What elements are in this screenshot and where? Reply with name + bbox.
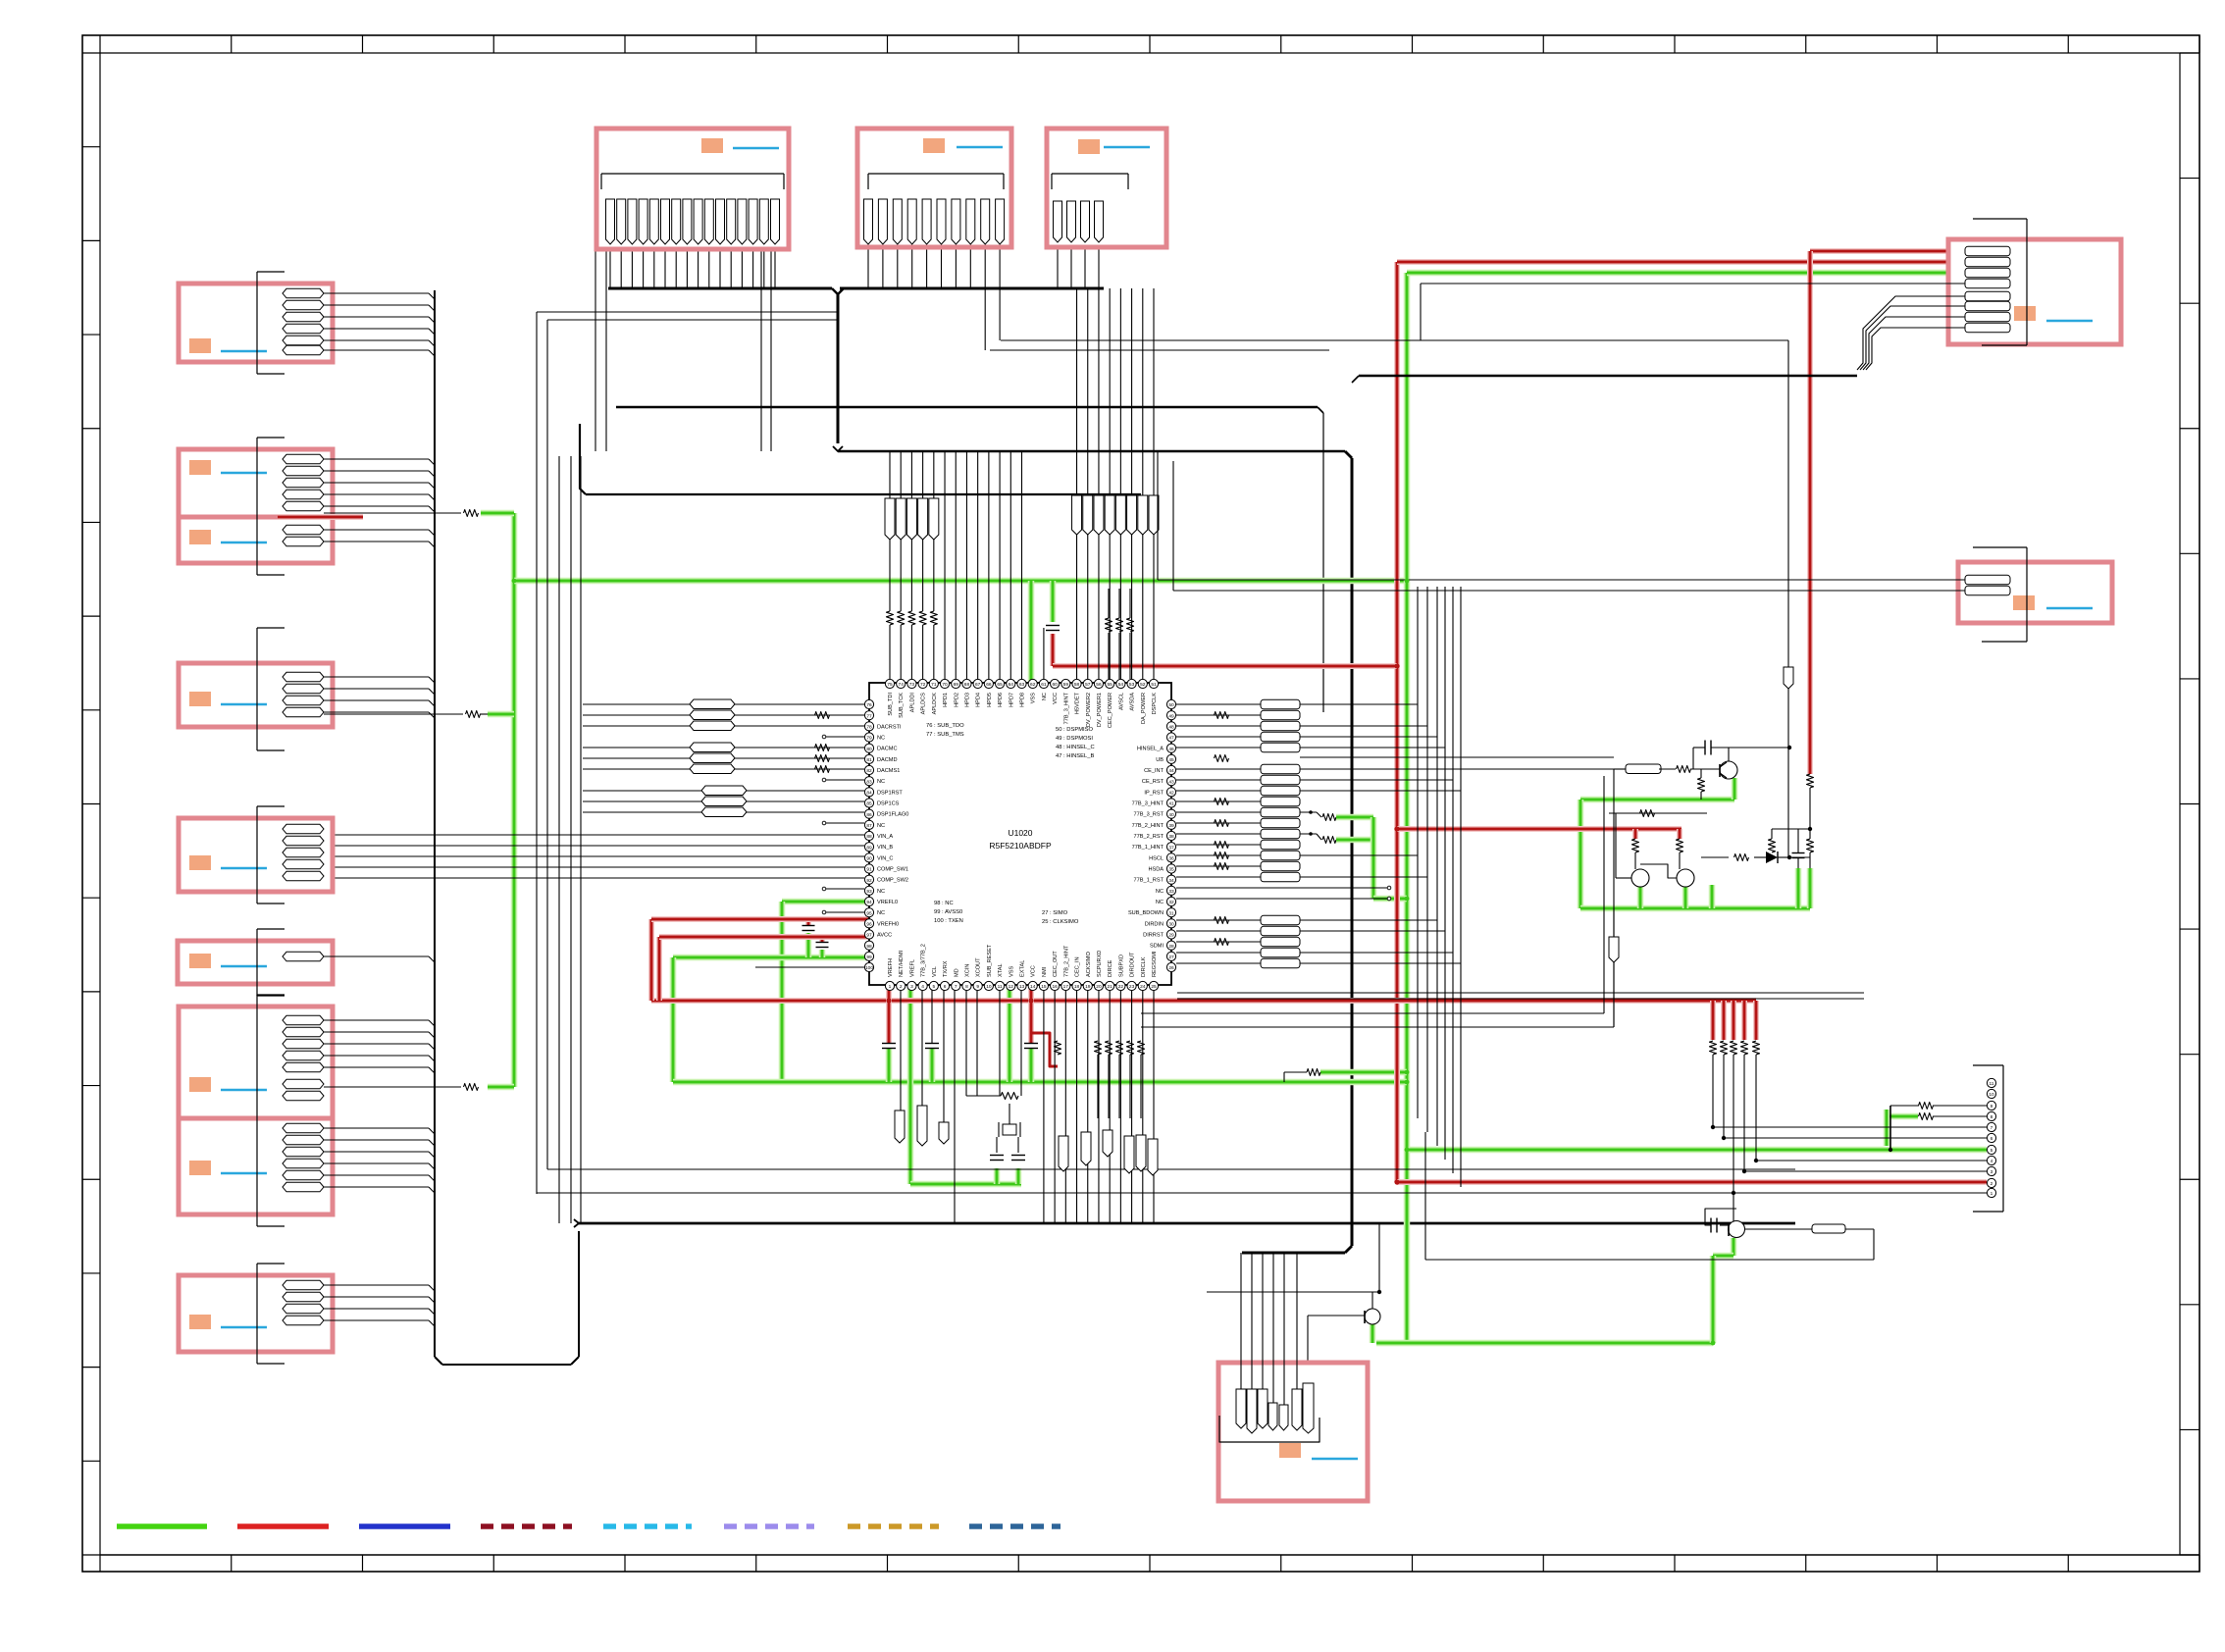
svg-text:24: 24 [1140,984,1146,990]
svg-text:77B_3_RST: 77B_3_RST [1134,812,1164,818]
svg-text:51: 51 [1151,682,1157,688]
svg-text:XCIN: XCIN [964,964,970,977]
svg-text:VREFL0: VREFL0 [877,900,898,905]
svg-text:CE_RST: CE_RST [1142,779,1164,785]
svg-text:96: 96 [866,922,872,928]
svg-text:95: 95 [866,910,872,916]
svg-text:3: 3 [910,984,913,990]
svg-text:7: 7 [955,984,957,990]
svg-text:50: 50 [1168,702,1174,708]
svg-text:85: 85 [866,801,872,807]
svg-text:46: 46 [1168,747,1174,752]
svg-text:23: 23 [1129,984,1135,990]
svg-text:99: 99 [866,955,872,960]
svg-text:62: 62 [1030,682,1036,688]
svg-text:75: 75 [887,682,893,688]
svg-text:HPD1: HPD1 [943,693,949,707]
svg-text:25: 25 [1151,984,1157,990]
svg-text:DACMC: DACMC [877,747,898,752]
svg-text:72: 72 [920,682,926,688]
svg-text:H5VDET: H5VDET [1075,692,1081,714]
svg-text:DIRRST: DIRRST [1143,933,1164,939]
svg-text:98: 98 [866,944,872,950]
svg-text:DACMS1: DACMS1 [877,768,900,774]
svg-text:COMP_SW2: COMP_SW2 [877,878,908,884]
svg-text:20: 20 [1096,984,1102,990]
svg-text:77 : SUB_TMS: 77 : SUB_TMS [926,732,964,738]
svg-text:HPD8: HPD8 [1020,693,1026,707]
svg-text:VCL: VCL [932,966,938,977]
svg-text:VCC: VCC [1031,965,1037,977]
svg-text:HSCL: HSCL [1149,855,1164,861]
svg-text:NC: NC [877,823,885,829]
svg-text:4: 4 [921,984,924,990]
svg-text:50 : DSPMISO: 50 : DSPMISO [1056,727,1094,733]
svg-text:21: 21 [1107,984,1112,990]
svg-text:HPD6: HPD6 [998,693,1004,707]
svg-text:3: 3 [1991,1169,1993,1175]
svg-text:77B_3_HINT: 77B_3_HINT [1063,692,1069,724]
svg-text:8: 8 [1991,1114,1993,1120]
svg-text:VREFL: VREFL [909,959,915,977]
svg-text:2: 2 [900,984,903,990]
svg-text:NMI: NMI [1042,966,1048,977]
svg-text:HPD4: HPD4 [976,693,982,707]
svg-text:45: 45 [1168,757,1174,763]
svg-text:CEC_POWER: CEC_POWER [1108,693,1113,728]
svg-text:EXTAL: EXTAL [1020,960,1026,977]
svg-text:11: 11 [998,984,1003,990]
svg-text:71: 71 [931,682,937,688]
svg-text:86: 86 [866,812,872,818]
svg-text:64: 64 [1009,682,1014,688]
svg-text:58: 58 [1074,682,1080,688]
svg-text:DA_POWER: DA_POWER [1141,693,1147,724]
svg-text:89: 89 [866,845,872,851]
svg-text:VCC: VCC [1053,693,1059,704]
svg-text:VSS: VSS [1031,693,1037,703]
svg-text:UB: UB [1156,757,1164,763]
svg-text:DIRCLK: DIRCLK [1141,956,1147,977]
svg-text:77B_2_HINT: 77B_2_HINT [1132,823,1164,829]
svg-text:5: 5 [932,984,935,990]
svg-text:SUBPXD: SUBPXD [1118,955,1124,977]
svg-text:8: 8 [965,984,968,990]
svg-text:DIRDIN: DIRDIN [1145,921,1164,927]
svg-text:80: 80 [866,747,872,752]
svg-text:XTAL: XTAL [998,963,1004,977]
svg-text:HPD2: HPD2 [954,693,959,707]
svg-text:CEC_IN: CEC_IN [1075,956,1081,977]
svg-text:10: 10 [1989,1092,1994,1098]
svg-text:60: 60 [1052,682,1058,688]
svg-text:5: 5 [1991,1148,1993,1154]
svg-text:28: 28 [1168,944,1174,950]
svg-text:27: 27 [1168,955,1174,960]
svg-text:CE_INT: CE_INT [1144,768,1164,774]
svg-text:HINSEL_A: HINSEL_A [1137,747,1164,752]
svg-text:CEC_OUT: CEC_OUT [1053,951,1059,977]
svg-text:DSP1CS: DSP1CS [877,801,900,807]
svg-text:32: 32 [1168,900,1174,905]
svg-text:NC: NC [877,910,885,916]
svg-text:ACKSIMO: ACKSIMO [1086,952,1092,977]
svg-text:68: 68 [964,682,970,688]
svg-text:9: 9 [976,984,979,990]
svg-text:88: 88 [866,834,872,840]
svg-text:54: 54 [1118,682,1124,688]
svg-text:HPD7: HPD7 [1009,693,1014,707]
svg-text:4: 4 [1991,1159,1993,1164]
svg-text:47 : HINSEL_B: 47 : HINSEL_B [1056,753,1094,759]
svg-text:77B_1_RST: 77B_1_RST [1134,878,1164,884]
svg-text:TX/RX: TX/RX [943,960,949,977]
svg-text:65: 65 [997,682,1003,688]
svg-text:DV_POWER1: DV_POWER1 [1097,693,1103,727]
svg-text:91: 91 [866,867,872,873]
svg-text:67: 67 [975,682,981,688]
svg-text:82: 82 [866,768,872,774]
svg-text:77B_2_HINT: 77B_2_HINT [1063,945,1069,977]
svg-text:2: 2 [1991,1181,1993,1187]
svg-text:DSP1FLAG0: DSP1FLAG0 [877,812,908,818]
svg-text:61: 61 [1041,682,1047,688]
svg-text:14: 14 [1030,984,1036,990]
svg-text:NC: NC [877,736,885,742]
svg-text:1: 1 [889,984,892,990]
svg-text:22: 22 [1118,984,1124,990]
svg-text:SUB_BDOWN: SUB_BDOWN [1128,910,1164,916]
svg-text:81: 81 [866,757,872,763]
svg-text:92: 92 [866,878,872,884]
svg-text:SUB_TCK: SUB_TCK [899,693,905,718]
svg-text:11: 11 [1990,1081,1994,1087]
svg-text:53: 53 [1129,682,1135,688]
svg-text:NC: NC [1042,693,1048,700]
svg-text:35: 35 [1168,867,1174,873]
svg-text:7: 7 [1991,1125,1993,1131]
svg-text:1: 1 [1991,1191,1993,1197]
svg-text:AVSDA: AVSDA [1130,693,1136,711]
svg-text:83: 83 [866,779,872,785]
svg-text:DSP1RST: DSP1RST [877,790,903,796]
svg-text:100 : TXEN: 100 : TXEN [934,918,963,924]
svg-text:17: 17 [1063,984,1069,990]
svg-text:44: 44 [1168,768,1174,774]
svg-text:55: 55 [1107,682,1112,688]
svg-text:VIN_C: VIN_C [877,855,893,861]
svg-text:42: 42 [1168,791,1174,797]
svg-text:100: 100 [865,965,873,971]
svg-text:29: 29 [1168,933,1174,939]
svg-text:HPD3: HPD3 [964,693,970,707]
svg-text:84: 84 [866,791,872,797]
svg-text:40: 40 [1168,812,1174,818]
svg-text:99 : AVSS0: 99 : AVSS0 [934,909,962,915]
svg-text:97: 97 [866,933,872,939]
svg-text:XCOUT: XCOUT [976,957,982,977]
svg-text:DACRSTI: DACRSTI [877,724,902,730]
svg-text:APLDCS: APLDCS [921,693,927,715]
svg-text:31: 31 [1168,910,1174,916]
svg-text:74: 74 [899,682,905,688]
svg-text:37: 37 [1168,845,1174,851]
svg-text:26: 26 [1168,965,1174,971]
svg-text:77B_3/77B_2: 77B_3/77B_2 [921,944,927,977]
svg-text:76 : SUB_TDO: 76 : SUB_TDO [926,723,964,729]
svg-text:COMP_SW1: COMP_SW1 [877,867,908,873]
svg-text:9: 9 [1991,1104,1993,1110]
svg-text:NC: NC [877,779,885,785]
svg-text:78: 78 [866,725,872,731]
svg-text:12: 12 [1009,984,1014,990]
svg-text:SCPURXD: SCPURXD [1097,951,1103,977]
svg-text:73: 73 [909,682,915,688]
svg-text:70: 70 [942,682,948,688]
svg-text:HPD5: HPD5 [987,693,993,707]
svg-text:6: 6 [1991,1136,1993,1142]
svg-text:79: 79 [866,736,872,742]
svg-text:SUB_RESET: SUB_RESET [987,944,993,977]
svg-text:VSS: VSS [1009,966,1014,977]
svg-text:94: 94 [866,900,872,905]
svg-text:59: 59 [1063,682,1069,688]
svg-text:19: 19 [1085,984,1091,990]
svg-text:34: 34 [1168,878,1174,884]
svg-text:DIRCE: DIRCE [1108,959,1113,977]
svg-text:98 : NC: 98 : NC [934,901,954,906]
svg-text:38: 38 [1168,834,1174,840]
svg-text:57: 57 [1085,682,1091,688]
svg-text:SDMI: SDMI [1150,944,1164,950]
svg-text:VIN_B: VIN_B [877,845,893,851]
svg-text:18: 18 [1074,984,1080,990]
svg-text:27 : SIMO: 27 : SIMO [1042,910,1068,916]
svg-text:49: 49 [1168,713,1174,719]
svg-text:93: 93 [866,889,872,895]
svg-text:13: 13 [1019,984,1025,990]
svg-text:SUB_TDI: SUB_TDI [888,693,894,716]
svg-text:NC: NC [1156,889,1164,895]
svg-text:VIN_A: VIN_A [877,834,893,840]
svg-text:77B_3_HINT: 77B_3_HINT [1132,801,1164,807]
svg-text:NC: NC [877,889,885,895]
svg-text:AVSCL: AVSCL [1118,693,1124,710]
svg-text:77: 77 [866,713,872,719]
svg-text:HSDA: HSDA [1148,867,1164,873]
svg-text:66: 66 [986,682,992,688]
svg-text:77B_2_RST: 77B_2_RST [1134,834,1164,840]
svg-text:87: 87 [866,823,872,829]
svg-text:49 : DSPMOSI: 49 : DSPMOSI [1056,736,1093,742]
svg-text:47: 47 [1168,736,1174,742]
svg-text:VREFH0: VREFH0 [877,921,899,927]
svg-text:MD: MD [954,968,959,977]
svg-text:76: 76 [866,702,872,708]
svg-text:NC: NC [1156,900,1164,905]
svg-text:33: 33 [1168,889,1174,895]
svg-text:VREFH: VREFH [888,958,894,977]
svg-text:41: 41 [1168,801,1174,807]
svg-text:52: 52 [1140,682,1146,688]
svg-text:56: 56 [1096,682,1102,688]
svg-text:DV_POWER2: DV_POWER2 [1086,693,1092,727]
svg-text:IP_RST: IP_RST [1144,790,1164,796]
svg-text:30: 30 [1168,922,1174,928]
svg-text:DSPCLK: DSPCLK [1152,693,1158,715]
svg-text:48 : HINSEL_C: 48 : HINSEL_C [1056,745,1095,750]
svg-text:DIRDOUT: DIRDOUT [1130,952,1136,977]
svg-text:10: 10 [986,984,992,990]
svg-text:NET/HDMI: NET/HDMI [899,951,905,977]
svg-text:AVCC: AVCC [877,933,892,939]
svg-text:48: 48 [1168,725,1174,731]
svg-text:39: 39 [1168,823,1174,829]
svg-text:25 : CLKSIMO: 25 : CLKSIMO [1042,919,1079,925]
svg-text:6: 6 [944,984,947,990]
svg-text:APLDDI: APLDDI [909,693,915,713]
svg-text:63: 63 [1019,682,1025,688]
svg-text:REGSOMI: REGSOMI [1152,951,1158,977]
svg-text:15: 15 [1041,984,1047,990]
svg-text:APLDCK: APLDCK [932,693,938,715]
svg-text:DACMD: DACMD [877,757,898,763]
svg-text:R5F5210ABDFP: R5F5210ABDFP [989,841,1052,851]
svg-text:U1020: U1020 [1008,828,1032,838]
svg-text:90: 90 [866,856,872,862]
svg-text:77B_1_HINT: 77B_1_HINT [1132,845,1164,851]
svg-text:43: 43 [1168,779,1174,785]
svg-text:16: 16 [1052,984,1058,990]
svg-text:69: 69 [954,682,959,688]
svg-text:36: 36 [1168,856,1174,862]
